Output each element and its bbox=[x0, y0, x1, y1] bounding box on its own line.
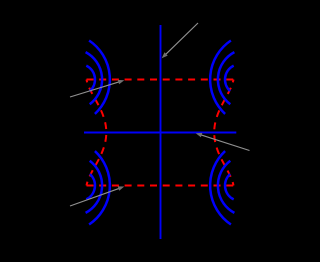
vertical axis line bbox=[160, 25, 162, 239]
horizontal axis line bbox=[84, 132, 236, 134]
pointer arrow to upper dashed row bbox=[70, 80, 124, 97]
upper-left wavefront arc middle bbox=[86, 52, 103, 104]
right red dashed pinch curve bbox=[214, 80, 233, 186]
lower-right wavefront arc middle bbox=[218, 161, 235, 213]
lower red dashed nodal row bbox=[87, 185, 234, 187]
pointer arrow to horizontal axis bbox=[196, 133, 250, 151]
upper-right wavefront arc middle bbox=[218, 52, 235, 104]
upper-right wavefront arc inner bbox=[225, 66, 234, 91]
upper-left wavefront arc outer bbox=[89, 41, 110, 114]
lower-right wavefront arc outer bbox=[210, 151, 231, 224]
upper-left wavefront arc inner bbox=[86, 66, 95, 91]
lower-left wavefront arc outer bbox=[89, 151, 110, 224]
pointer arrow to vertical axis bbox=[162, 23, 198, 58]
pointer arrow to lower dashed row bbox=[70, 186, 124, 206]
upper red dashed nodal row bbox=[87, 79, 234, 81]
lower-right wavefront arc inner bbox=[225, 174, 234, 199]
left red dashed pinch curve bbox=[87, 80, 107, 186]
lower-left wavefront arc middle bbox=[86, 161, 103, 213]
lower-left wavefront arc inner bbox=[86, 174, 95, 199]
upper-right wavefront arc outer bbox=[210, 41, 231, 114]
